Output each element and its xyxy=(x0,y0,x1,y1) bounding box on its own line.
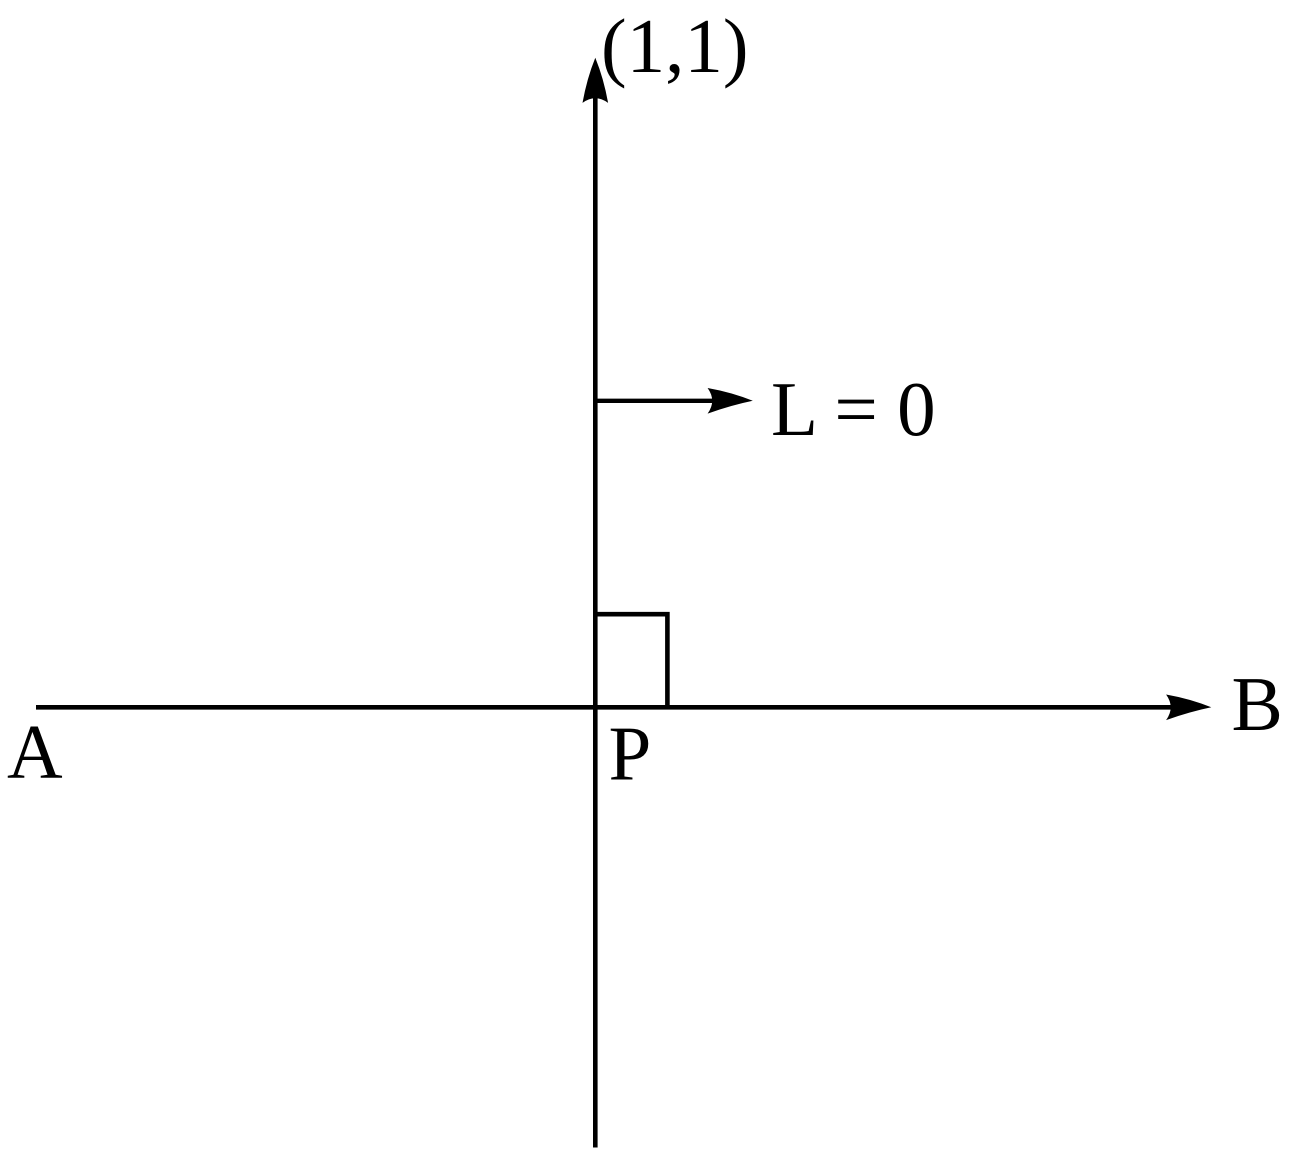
wire vertical axis line through P xyxy=(593,92,598,1148)
svg-text:B: B xyxy=(1232,661,1283,747)
node up arrowhead xyxy=(583,58,609,103)
svg-text:A: A xyxy=(7,709,63,795)
wire L=0 arrow shaft xyxy=(595,399,716,403)
node L=0 arrowhead xyxy=(708,388,753,414)
node right-angle mark at P xyxy=(595,614,667,707)
node right arrowhead B xyxy=(1166,695,1211,721)
svg-text:P: P xyxy=(609,710,652,796)
wire horizontal line A to B xyxy=(36,705,1173,710)
svg-text:(1,1): (1,1) xyxy=(601,3,749,89)
svg-text:L = 0: L = 0 xyxy=(771,366,936,452)
